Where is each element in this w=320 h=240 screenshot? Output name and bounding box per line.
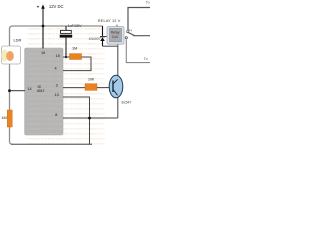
svg-text:16: 16: [41, 51, 45, 55]
svg-text:4: 4: [55, 66, 57, 70]
svg-text:To: To: [144, 57, 148, 61]
svg-text:4017: 4017: [37, 89, 45, 93]
svg-text:Coil: Coil: [112, 35, 118, 39]
svg-text:8: 8: [55, 113, 57, 117]
svg-text:LDR: LDR: [14, 37, 22, 42]
svg-text:Bc547: Bc547: [122, 100, 132, 104]
svg-text:2: 2: [56, 84, 58, 88]
svg-text:1M: 1M: [72, 46, 77, 50]
svg-text:+: +: [37, 4, 40, 9]
svg-text:swagatam innovations swagatam: swagatam innovations swagatam innovation…: [28, 137, 106, 141]
svg-text:1N4007: 1N4007: [89, 37, 101, 41]
svg-text:1uF/25V: 1uF/25V: [68, 24, 82, 28]
svg-text:12V DC: 12V DC: [49, 4, 64, 9]
svg-text:14: 14: [27, 87, 31, 91]
svg-text:1M: 1M: [1, 115, 6, 120]
svg-text:15: 15: [56, 54, 60, 58]
svg-text:Relay: Relay: [111, 30, 120, 34]
svg-text:To: To: [146, 1, 150, 5]
svg-text:10K: 10K: [88, 78, 95, 82]
svg-text:13: 13: [55, 93, 59, 97]
svg-text:RELAY 12 V: RELAY 12 V: [98, 18, 121, 23]
